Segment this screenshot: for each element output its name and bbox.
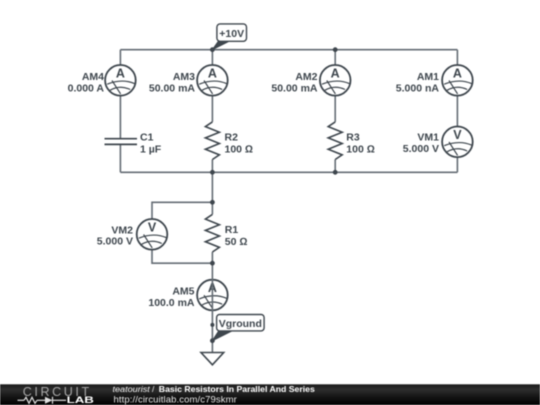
voltmeter VM1 (403, 127, 473, 158)
ammeter AM5 (148, 280, 227, 311)
svg-text:LAB: LAB (67, 395, 94, 405)
junction bottom rail at col3 (333, 170, 338, 175)
CircuitLab logo CIRCUIT (23, 385, 90, 399)
wire col2 top (211, 50, 213, 66)
resistor R1 (205, 214, 247, 252)
junction VM2 bottom (210, 261, 215, 266)
svg-text:AM5: AM5 (172, 286, 194, 298)
wire col1 top (119, 50, 121, 66)
wire col2 AM3 to R2 (211, 95, 213, 122)
wire col3 R3 to bottom rail (334, 160, 336, 173)
wire through AM5 to ground (211, 263, 213, 352)
junction top rail at col2 (+10V tap) (210, 47, 215, 52)
wire col3 AM2 to R3 (334, 95, 336, 122)
ammeter AM2 (271, 65, 350, 96)
footer url (114, 394, 237, 405)
svg-text:teatourist: teatourist (113, 384, 151, 394)
wire top rail (120, 49, 457, 51)
wire col4 top (456, 50, 458, 66)
ammeter AM3 (149, 65, 228, 96)
wire bottom rail (120, 171, 457, 173)
wire col4 AM1 to VM1 (456, 95, 458, 127)
junction Vground node (210, 323, 214, 327)
svg-text:R2: R2 (225, 132, 239, 144)
svg-text:100 Ω: 100 Ω (346, 144, 375, 156)
voltmeter VM2 (97, 219, 168, 250)
svg-text:R1: R1 (225, 224, 239, 236)
ammeter AM4 (68, 65, 136, 96)
ground (201, 353, 224, 365)
node Vground flag (210, 315, 264, 344)
wire VM2 top branch (152, 202, 212, 219)
svg-text:VM2: VM2 (111, 224, 133, 236)
svg-text:+10V: +10V (219, 28, 244, 40)
ammeter AM1 (396, 65, 473, 96)
svg-text:50.00 mA: 50.00 mA (149, 83, 196, 95)
junction VM2 top (210, 200, 215, 205)
svg-text:VM1: VM1 (417, 131, 439, 143)
junction bottom rail at col2 (210, 170, 215, 175)
svg-text:1 µF: 1 µF (140, 144, 162, 156)
power flag +10V (212, 24, 246, 50)
footer title (113, 384, 316, 394)
svg-text:Vground: Vground (219, 318, 262, 330)
wire col3 top (334, 50, 336, 66)
svg-text:0.000 A: 0.000 A (68, 83, 105, 95)
svg-text:100 Ω: 100 Ω (225, 144, 254, 156)
wire col2 R2 to bottom rail (211, 160, 213, 173)
svg-text:AM4: AM4 (82, 71, 104, 83)
svg-text:100.0 mA: 100.0 mA (148, 297, 195, 309)
resistor R2 (205, 122, 253, 160)
wire mid stem to R1 (211, 172, 213, 214)
svg-text:Basic Resistors In Parallel An: Basic Resistors In Parallel And Series (159, 384, 315, 394)
svg-text:5.000 V: 5.000 V (97, 236, 133, 248)
svg-text:50.00 mA: 50.00 mA (271, 83, 318, 95)
svg-text:http://circuitlab.com/c79skmr: http://circuitlab.com/c79skmr (114, 394, 237, 405)
wire col1 C1 to bottom rail (119, 144, 121, 172)
svg-text:50 Ω: 50 Ω (225, 236, 248, 248)
svg-text:AM2: AM2 (295, 71, 317, 83)
svg-text:AM3: AM3 (173, 71, 195, 83)
wire VM2 bottom branch (152, 249, 212, 263)
wire col1 AM4 to C1 (119, 95, 121, 139)
svg-text:5.000 nA: 5.000 nA (396, 83, 440, 95)
svg-text:AM1: AM1 (417, 71, 439, 83)
CircuitLab logo LAB (67, 395, 94, 405)
wire R1 to AM5 (211, 252, 213, 265)
junction top rail at col3 (333, 47, 338, 52)
svg-text:5.000 V: 5.000 V (403, 143, 439, 155)
CircuitLab logo squiggle (resistor + diode) (18, 397, 67, 404)
svg-text:C1: C1 (140, 132, 154, 144)
wire col4 VM1 to bottom rail (456, 157, 458, 172)
footer bar (0, 384, 540, 405)
svg-text:R3: R3 (346, 132, 360, 144)
capacitor C1 (105, 132, 162, 156)
resistor R3 (328, 122, 375, 160)
